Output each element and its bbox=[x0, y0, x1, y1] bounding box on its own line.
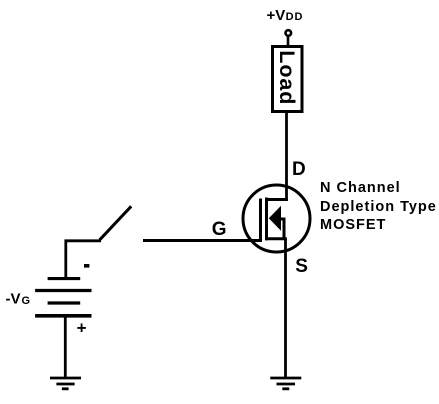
label - (battery negative terminal) bbox=[84, 264, 89, 268]
ground GND1 bbox=[50, 378, 81, 389]
wire gate of Q1 to switch bbox=[143, 239, 262, 242]
label -VG (battery voltage) bbox=[6, 291, 31, 308]
wire VDD terminal to Load resistor bbox=[287, 37, 290, 46]
svg-text:DD: DD bbox=[286, 11, 304, 23]
battery VG plate 1 (short, negative) bbox=[48, 277, 81, 280]
transistor Q1 source connection bar bbox=[265, 237, 287, 240]
transistor Q1 body circle bbox=[243, 185, 310, 252]
transistor Q1 body-source link bbox=[281, 219, 285, 239]
svg-text:D: D bbox=[292, 159, 306, 180]
svg-text:G: G bbox=[22, 295, 31, 307]
wire switch left contact down to battery bbox=[66, 241, 101, 278]
transistor Q1 gate bar bbox=[259, 199, 262, 241]
transistor Q1 channel bar bbox=[265, 198, 268, 241]
terminal +VDD bbox=[286, 30, 292, 36]
switch SW1 blade bbox=[100, 206, 132, 240]
wire source of Q1 to ground GND2 bbox=[284, 239, 287, 378]
wire battery to ground GND1 bbox=[64, 317, 67, 378]
svg-text:S: S bbox=[295, 256, 308, 277]
ground GND2 bbox=[270, 378, 301, 389]
svg-text:+: + bbox=[77, 318, 87, 337]
battery VG plate 2 (long) bbox=[35, 289, 91, 292]
transistor Q1 substrate arrow bbox=[269, 206, 281, 231]
battery VG plate 3 (short) bbox=[48, 301, 81, 304]
svg-text:N Channel: N Channel bbox=[320, 180, 401, 196]
svg-text:-V: -V bbox=[6, 291, 21, 308]
svg-text:Depletion Type: Depletion Type bbox=[320, 199, 437, 215]
svg-text:+V: +V bbox=[267, 7, 286, 24]
wire Load to drain of Q1 bbox=[285, 112, 288, 200]
svg-text:Load: Load bbox=[275, 50, 299, 105]
annotation N Channel Depletion Type MOSFET bbox=[320, 180, 437, 233]
svg-text:MOSFET: MOSFET bbox=[320, 217, 386, 233]
svg-text:G: G bbox=[212, 219, 227, 240]
battery VG plate 4 (long, positive) bbox=[35, 314, 91, 318]
transistor Q1 drain connection bar bbox=[265, 198, 288, 201]
resistor Load (box) bbox=[273, 47, 303, 112]
node +VDD label bbox=[267, 7, 304, 24]
